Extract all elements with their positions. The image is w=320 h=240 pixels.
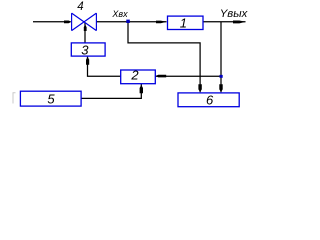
svg-text:4: 4 [77,1,83,13]
svg-text:1: 1 [180,15,187,30]
svg-text:2: 2 [130,68,139,83]
svg-text:Yвых: Yвых [220,8,249,20]
svg-text:3: 3 [81,42,89,57]
svg-text:Xвх: Xвх [111,9,128,19]
svg-text:6: 6 [206,92,214,107]
svg-text:5: 5 [47,91,55,106]
